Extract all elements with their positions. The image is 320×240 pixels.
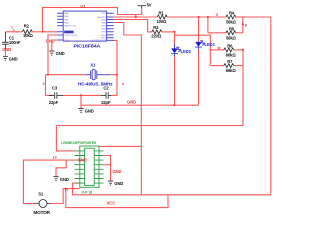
svg-text:6: 6: [216, 13, 218, 17]
wire W3: pin RB down to L293D area: [114, 23, 142, 195]
wire: LED2 anode drop: [174, 32, 176, 48]
wire: R6/R7 right vertical down: [242, 50, 244, 126]
wire: crystal right to OSC2 vertical: [110, 74, 117, 76]
node junction R3/LED2: [173, 31, 175, 33]
wire: gnd rail: [81, 104, 199, 106]
svg-text:GND: GND: [85, 109, 94, 114]
net tick 7: [217, 48, 220, 50]
wire W1 continued: R1 to R4: [167, 16, 226, 18]
svg-text:220Ω: 220Ω: [151, 34, 162, 39]
svg-text:R5: R5: [229, 27, 235, 32]
wire: top rail to right edge: [243, 16, 271, 18]
svg-text:22pF: 22pF: [49, 100, 59, 105]
PIC16F84A microcontroller U1: [57, 4, 113, 48]
wire: R5 left vertical from W1: [207, 17, 209, 33]
wire: right big vertical: [270, 17, 272, 195]
wire: R4 right lead: [235, 16, 243, 18]
svg-text:100Ω: 100Ω: [157, 19, 168, 24]
node junction LED1 branch: [197, 16, 199, 18]
svg-text:VCC: VCC: [107, 201, 116, 206]
resistor R5: [208, 27, 243, 41]
wire: LED1 cathode to gnd rail end: [198, 50, 200, 105]
capacitor C3: [49, 86, 63, 105]
inner body: [85, 148, 95, 185]
wire: C1 to R2: [5, 31, 22, 33]
ground symbol right of L293D: [108, 181, 123, 186]
capacitor C1: [2, 32, 21, 49]
wire: motor right to pin 11: [51, 189, 80, 204]
svg-text:22pF: 22pF: [101, 100, 111, 105]
wire: OSC1 pin to crystal: [48, 35, 57, 75]
power 5V symbol: [138, 3, 152, 15]
crystal X1: [78, 62, 113, 86]
node junction crystal right: [116, 74, 118, 76]
svg-text:C3: C3: [52, 86, 58, 91]
resistor R3: [151, 25, 162, 39]
LED LED2: [171, 44, 191, 58]
wire: OSC2 pin down right side of box: [114, 40, 117, 95]
svg-text:GND: GND: [60, 177, 69, 182]
wire: caps wire right corner: [111, 94, 117, 96]
svg-text:R7: R7: [227, 59, 233, 64]
svg-text:VSS: VSS: [64, 40, 69, 42]
svg-text:3: 3: [122, 82, 124, 86]
svg-text:R3: R3: [153, 25, 159, 30]
ground symbol at C1: [3, 57, 18, 62]
right pins: [99, 151, 104, 183]
wire: LED2 cathode to gnd rail: [174, 57, 176, 106]
node junction R6 right: [242, 49, 244, 51]
svg-text:56kΩ: 56kΩ: [226, 19, 237, 24]
wire: VCC rail: [66, 195, 168, 208]
node junction net 8: [242, 23, 244, 25]
svg-text:OSC2/CLKOUT: OSC2/CLKOUT: [90, 40, 106, 42]
svg-text:GND: GND: [46, 38, 55, 43]
capacitor C2: [100, 86, 111, 105]
net label 1 tick: [13, 29, 15, 32]
resistor R1: [157, 11, 168, 25]
chip body: [63, 11, 106, 41]
node junction VCC riser: [65, 188, 67, 190]
wire: caps wire left segment: [46, 94, 53, 96]
svg-text:LED2: LED2: [181, 49, 192, 54]
svg-text:2: 2: [43, 82, 45, 86]
svg-text:GND: GND: [78, 158, 87, 163]
svg-text:S1: S1: [38, 192, 44, 197]
wire: VCC rail riser: [65, 189, 67, 208]
resistor R2: [22, 23, 33, 38]
wire: L293D top right pin to W3: [99, 145, 141, 147]
motor driver L293D: [61, 141, 104, 195]
svg-text:GND: GND: [2, 47, 11, 52]
wire: caps wire middle: [63, 94, 100, 96]
svg-text:100nF: 100nF: [9, 40, 21, 45]
node junction LED2/gnd rail: [174, 104, 176, 106]
svg-text:PIC16F84A: PIC16F84A: [74, 43, 101, 48]
svg-text:MOTOR: MOTOR: [33, 210, 50, 215]
wire: MCLR net from R2 up and over chip to 5V: [42, 8, 141, 32]
svg-text:10kΩ: 10kΩ: [23, 33, 34, 38]
svg-text:5V: 5V: [147, 3, 152, 8]
chip left pins: [57, 13, 63, 40]
wire: rail from R7 to net-10 drop: [56, 125, 243, 127]
svg-text:O-P 16: O-P 16: [82, 191, 93, 195]
svg-text:66kΩ: 66kΩ: [226, 52, 237, 57]
ground symbol at VSS: [49, 51, 64, 56]
left pins: [75, 151, 80, 183]
wire W1: pin RB to R1: [114, 16, 158, 18]
svg-text:66kΩ: 66kΩ: [226, 68, 237, 73]
svg-text:C2: C2: [103, 86, 109, 91]
svg-text:1: 1: [11, 26, 13, 30]
svg-text:GND: GND: [56, 51, 65, 56]
node junction R5 branch: [207, 16, 209, 18]
node junction gnd tap: [80, 94, 82, 96]
svg-text:10: 10: [53, 156, 57, 160]
ground symbol left of L293D: [53, 177, 68, 182]
wire: R2 to MCLR pin: [32, 31, 58, 33]
svg-text:56kΩ: 56kΩ: [226, 35, 237, 40]
svg-text:R1: R1: [159, 11, 165, 16]
motor S1: [33, 192, 50, 216]
svg-text:GND: GND: [9, 57, 18, 62]
wire W2: pin RB to R3: [114, 20, 152, 32]
wire: LED1 anode drop: [198, 17, 200, 42]
wire: bottom rail1: [73, 183, 271, 195]
wire: gnd tap down: [80, 95, 82, 108]
wire: C1 to ground: [4, 49, 6, 56]
svg-text:U1: U1: [80, 4, 86, 9]
node junction 5V/W1: [135, 16, 137, 18]
svg-text:X1: X1: [90, 62, 96, 67]
svg-text:GND: GND: [112, 169, 121, 174]
pin MCLR highlighted: [64, 31, 73, 34]
resistor R6: [210, 43, 243, 57]
chip right pins: [107, 13, 114, 40]
svg-text:OSC1/CLKIN: OSC1/CLKIN: [64, 35, 77, 37]
LED LED1: [195, 41, 215, 51]
wire: gnd branch left chip: [56, 160, 66, 176]
ground symbol below crystal: [78, 109, 93, 114]
svg-text:L293NEO2FFIOPONTEH: L293NEO2FFIOPONTEH: [61, 141, 96, 145]
wire: VSS pin to ground: [52, 40, 57, 51]
svg-text:LED1: LED1: [205, 42, 216, 47]
node junction crystal left: [47, 74, 49, 76]
svg-text:VDD: VDD: [101, 13, 106, 15]
wire: R4/R5 right join vertical: [242, 17, 244, 33]
wire: L293D right pins to ground: [104, 156, 111, 181]
svg-text:RA4/TOCKI: RA4/TOCKI: [64, 25, 76, 28]
wire: branch to R6/R7 block: [175, 35, 211, 50]
wire: net GND wire B to motor left: [23, 160, 74, 203]
wire: crystal top wire left: [46, 74, 87, 76]
svg-text:R4: R4: [229, 11, 235, 16]
svg-text:R6: R6: [227, 43, 233, 48]
wire: crystal box left vertical: [45, 75, 47, 96]
svg-text:R2: R2: [24, 23, 30, 28]
wire: R6/R7 left join vertical: [209, 50, 211, 66]
resistor R4: [226, 11, 237, 25]
wire: 5V tee down to VDD rail: [135, 15, 137, 18]
wire: net 10 from rail to pin1: [56, 126, 74, 151]
wire: R3 right to LED2 junction: [162, 31, 175, 33]
svg-text:GND: GND: [114, 181, 123, 186]
svg-text:8: 8: [245, 23, 247, 27]
resistor R7: [210, 59, 243, 73]
chip body: [80, 146, 99, 187]
node junction at R2/MCLR wire: [41, 31, 43, 33]
svg-text:GND: GND: [127, 100, 136, 105]
